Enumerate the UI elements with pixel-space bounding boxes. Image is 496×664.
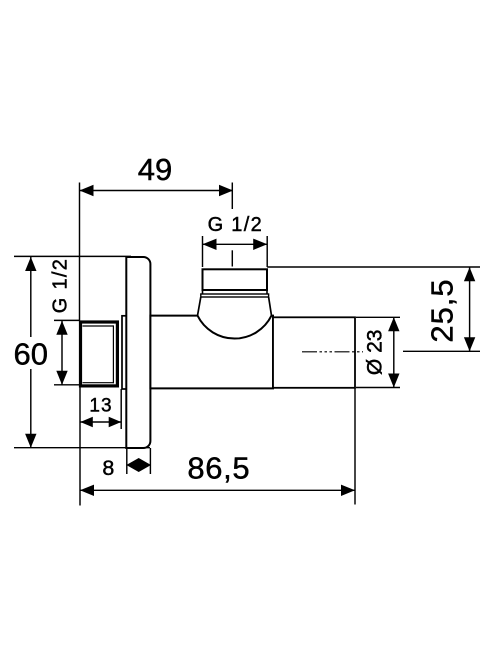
valve body [150,316,273,389]
top port neck right side [269,297,272,316]
dim 8 extension right [149,448,151,474]
outlet pipe [273,317,355,388]
dim G 1/2 left label [50,258,72,313]
dim 49 line [80,185,234,196]
wall rosette [126,257,150,448]
dim 25.5 top extension [267,266,480,268]
top port sides below thread [203,290,268,294]
dim 25.5 line [464,267,475,351]
dim G 1/2 left line [56,321,67,385]
dim dia23 label [364,330,387,376]
top port center tick [231,250,233,266]
dim 13 label [89,395,112,416]
svg-text:13: 13 [89,395,112,416]
dim 86.5 label [187,450,250,485]
dim 13 right extension [120,389,122,429]
svg-text:Ø 23: Ø 23 [364,330,387,376]
dim 60 bottom extension [14,447,150,449]
dim G 1/2 top label [208,214,263,236]
dim dia23 bottom extension [356,387,400,389]
dim 8 label [102,456,114,480]
dim G 1/2 top line [203,239,268,250]
union nut [81,322,118,386]
dim 49 extension line left [79,183,81,322]
pipe centerline [302,351,363,353]
dim 8 extension left [126,448,128,474]
svg-text:G 1/2: G 1/2 [208,214,263,236]
dim 86.5 left extension [79,387,81,506]
dim 60 line [25,257,36,448]
svg-text:8: 8 [102,456,114,480]
dim dia23 line [388,317,399,387]
dim 8 rhombus [126,458,151,472]
dim 25.5 bottom extension [403,350,480,352]
top port thread [203,269,268,290]
hub between nut and rosette [122,316,136,389]
dim G 1/2 left bottom extension [54,384,80,386]
svg-text:49: 49 [138,152,172,187]
dim 86.5 right extension [354,388,356,505]
dim 60 top extension [14,255,131,257]
svg-text:G 1/2: G 1/2 [50,258,72,313]
svg-text:60: 60 [14,336,48,371]
top port neck left side [198,297,201,316]
svg-text:25,5: 25,5 [424,278,459,342]
dim 13 line [80,417,121,427]
top port collar [201,294,269,297]
dim 60 label [14,336,48,371]
svg-text:86,5: 86,5 [187,450,250,485]
dim 49 extension line right [231,183,233,210]
dim G 1/2 left top extension [54,319,80,321]
dim 86.5 line [80,485,355,496]
dim dia23 top extension [356,316,400,318]
dim 49 label [138,152,172,187]
dim G 1/2 top ext right [266,236,268,267]
dim G 1/2 top ext left [202,236,204,267]
dim 25.5 label [424,278,459,342]
